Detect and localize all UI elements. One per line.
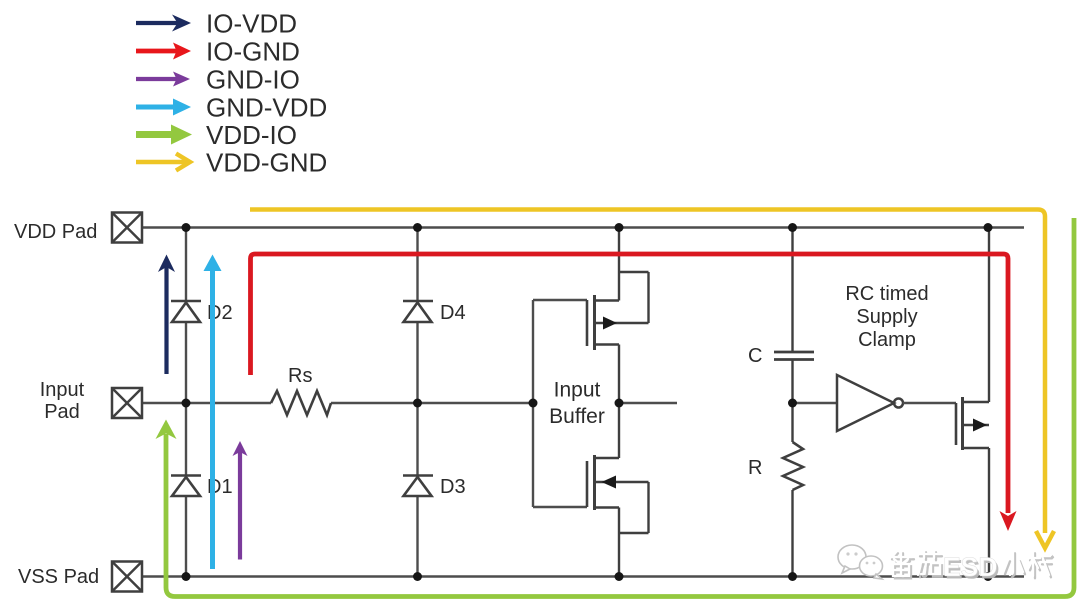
path arrow IO-GND (red, up from input, across top, down right) bbox=[251, 254, 1009, 513]
legend arrow VDD-GND bbox=[136, 154, 190, 171]
watermark wechat icon bbox=[838, 545, 883, 579]
capacitor C bbox=[774, 228, 814, 404]
path arrow GND-IO (purple, up along D1) bbox=[233, 441, 248, 560]
path arrow IO-VDD (navy, up along D2) bbox=[158, 255, 175, 375]
wire Rs to buffer gate bus bbox=[331, 402, 533, 404]
junction dots VSS rail bbox=[182, 572, 993, 581]
junction dots input line bbox=[182, 399, 798, 408]
transistor NMOS clamp bbox=[956, 228, 989, 577]
legend arrow GND-IO bbox=[136, 72, 190, 87]
wire VDD rail bbox=[142, 226, 1024, 228]
svg-text:Supply: Supply bbox=[856, 306, 917, 328]
wire VSS rail bbox=[142, 575, 1024, 577]
wire buffer output stub bbox=[619, 402, 677, 404]
path arrow VDD-IO (green, right edge, bottom, up to input pad) bbox=[166, 218, 1074, 597]
svg-text:Clamp: Clamp bbox=[858, 329, 916, 351]
svg-text:ESD: ESD bbox=[943, 552, 998, 582]
svg-text:C: C bbox=[748, 345, 762, 367]
svg-text:Pad: Pad bbox=[44, 401, 80, 423]
transistor NMOS input buffer lower bbox=[587, 403, 649, 577]
path arrow GND-VDD (cyan, up whole left side) bbox=[204, 255, 222, 570]
svg-text:Input: Input bbox=[554, 379, 601, 402]
svg-text:Input: Input bbox=[40, 379, 85, 401]
legend arrow VDD-IO bbox=[136, 125, 192, 145]
legend arrow IO-VDD bbox=[136, 15, 191, 32]
svg-text:VDD-IO: VDD-IO bbox=[206, 120, 297, 150]
wire RC node to inverter bbox=[793, 402, 838, 404]
inverter U1 bbox=[837, 375, 903, 431]
wire middle column D4/D3 branch bbox=[416, 228, 418, 577]
svg-text:GND-VDD: GND-VDD bbox=[206, 92, 327, 122]
path arrow VDD-GND (yellow, across very top, down far right) bbox=[250, 210, 1054, 549]
wire left column D2/D1 branch bbox=[185, 228, 187, 577]
svg-text:Buffer: Buffer bbox=[549, 405, 605, 428]
pad symbol Input Pad bbox=[112, 388, 142, 418]
junction dots VDD rail bbox=[182, 223, 993, 232]
wire inverter output bbox=[903, 402, 956, 404]
diode D2 bbox=[171, 301, 201, 322]
diode D1 bbox=[171, 476, 201, 497]
svg-text:D4: D4 bbox=[440, 302, 466, 324]
legend arrow GND-VDD bbox=[136, 99, 191, 116]
transistor NMOS bulk arrow bbox=[602, 476, 617, 489]
svg-text:VDD-GND: VDD-GND bbox=[206, 147, 327, 177]
resistor R bbox=[783, 403, 803, 577]
svg-text:D3: D3 bbox=[440, 476, 466, 498]
diode D4 bbox=[403, 301, 433, 322]
resistor Rs bbox=[271, 391, 331, 415]
transistor PMOS bulk arrow bbox=[603, 317, 617, 330]
watermark glyph 番茄...小栈 shadow layer bbox=[892, 552, 1053, 578]
svg-text:RC timed: RC timed bbox=[845, 283, 928, 305]
svg-text:R: R bbox=[748, 457, 762, 479]
svg-text:VSS Pad: VSS Pad bbox=[18, 566, 99, 588]
svg-text:GND-IO: GND-IO bbox=[206, 64, 300, 94]
diode D3 bbox=[403, 476, 433, 497]
transistor NMOS clamp bulk arrow bbox=[973, 419, 987, 432]
wire input pad to Rs bbox=[142, 402, 271, 404]
wire input buffer gate bus bbox=[533, 300, 587, 507]
svg-text:Rs: Rs bbox=[288, 365, 312, 387]
svg-text:IO-VDD: IO-VDD bbox=[206, 8, 297, 38]
svg-text:IO-GND: IO-GND bbox=[206, 36, 300, 66]
pad symbol VSS Pad bbox=[112, 562, 142, 592]
transistor PMOS input buffer upper bbox=[587, 228, 649, 404]
legend arrow IO-GND bbox=[136, 43, 191, 60]
svg-text:VDD Pad: VDD Pad bbox=[14, 221, 97, 243]
watermark glyph 番茄...小栈 white layer bbox=[890, 550, 1051, 576]
pad symbol VDD Pad bbox=[112, 213, 142, 243]
